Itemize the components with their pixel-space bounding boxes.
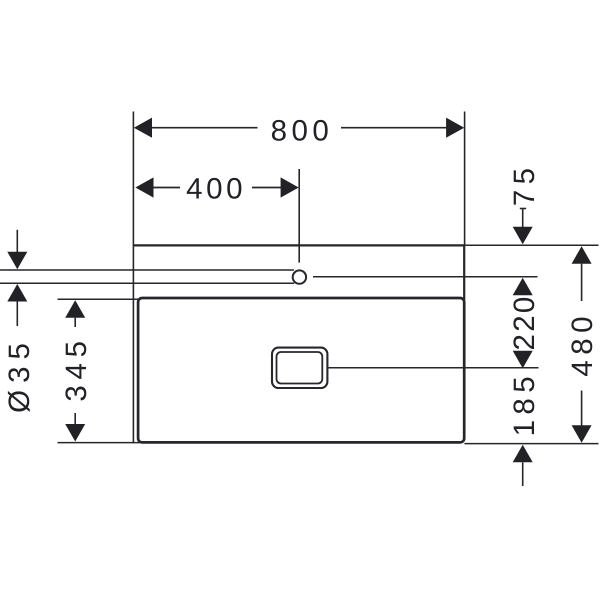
faucet centerline — [298, 169, 300, 263]
basin body outline — [138, 298, 464, 442]
svg-text:185: 185 — [508, 371, 541, 436]
dimension D35 upper stem — [16, 230, 18, 253]
dimension 345 bottom arrow — [65, 424, 85, 442]
dimension 400 left arrow — [135, 177, 153, 197]
body top extension line left — [58, 298, 141, 300]
dimension D35 lower arrow — [7, 284, 27, 302]
dimension 345 top stem — [74, 318, 76, 327]
dimension 480 top arrow — [572, 246, 592, 264]
dimension 800 left arrow — [134, 118, 152, 138]
dimension 185 stem — [522, 462, 524, 486]
dimension 400 line — [153, 187, 281, 189]
deck right edge — [463, 245, 465, 300]
dimension D35 upper arrow — [7, 252, 27, 269]
svg-text:800: 800 — [271, 114, 334, 147]
svg-text:Ø35: Ø35 — [3, 336, 36, 413]
svg-text:480: 480 — [566, 311, 599, 377]
svg-text:400: 400 — [186, 172, 246, 205]
svg-text:75: 75 — [508, 163, 541, 206]
right extension line (800 dim) — [464, 112, 466, 246]
dimension 800 right arrow — [446, 118, 464, 138]
dimension 800 line — [151, 127, 447, 129]
drain inner rectangle — [277, 352, 323, 384]
dimension 480 top stem — [581, 264, 583, 301]
dimension 480 bottom stem — [581, 391, 583, 426]
dimension 220 top arrow — [513, 278, 533, 296]
drain outer rectangle — [272, 348, 327, 388]
deck top extension line right — [464, 244, 598, 246]
dimension 220 bottom arrow — [513, 351, 533, 369]
drain level extension line — [329, 367, 539, 369]
dimension 345 bottom stem — [74, 413, 76, 424]
dimension 75 tick — [520, 209, 526, 229]
svg-text:345: 345 — [60, 335, 93, 401]
faucet hole circle — [293, 270, 306, 283]
faucet hole lower tangent line — [0, 282, 294, 284]
dimension 480 bottom arrow — [572, 425, 592, 443]
dimension 185 arrow — [513, 445, 533, 463]
dimension 75 arrow — [513, 227, 533, 245]
bottom extension line left — [58, 442, 141, 444]
bottom extension line right — [464, 443, 598, 445]
dimension 400 right arrow — [281, 177, 299, 197]
faucet level line to right — [313, 276, 538, 278]
left extension line / basin left edge — [132, 112, 134, 444]
deck top edge — [133, 244, 464, 246]
dimension 345 top arrow — [65, 300, 85, 318]
faucet hole upper tangent line — [0, 269, 294, 271]
dimension D35 lower stem — [16, 302, 18, 327]
svg-text:220: 220 — [508, 294, 541, 350]
